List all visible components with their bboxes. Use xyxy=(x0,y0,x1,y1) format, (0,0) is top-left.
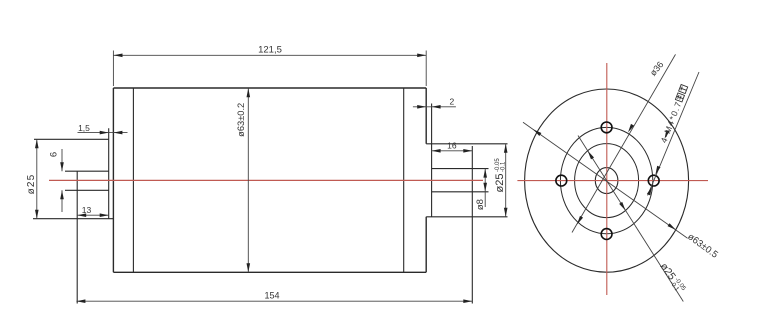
outer circle o63 body xyxy=(525,89,689,272)
end cap inner line left xyxy=(132,88,134,272)
front boss (left, 1.5mm lip) xyxy=(33,128,113,218)
svg-text:ø25: ø25 xyxy=(494,174,506,193)
bolt hole top xyxy=(601,122,612,133)
red centerline side view xyxy=(49,179,483,181)
dimension o25 left xyxy=(36,139,38,218)
bolt hole bottom xyxy=(601,229,612,240)
motor body outline xyxy=(113,88,426,272)
svg-text:1,5: 1,5 xyxy=(78,123,90,133)
svg-text:13: 13 xyxy=(82,205,92,215)
svg-text:154: 154 xyxy=(264,291,279,301)
leader o63+-0.5 diagonal xyxy=(523,122,687,238)
dimension 2 xyxy=(413,106,456,108)
rear shaft o8 lines xyxy=(432,169,489,192)
leader o25 -0.05 -0.1 diameter line through center xyxy=(578,136,683,302)
shaft circle o8 xyxy=(595,168,618,194)
dimension 154 bottom xyxy=(76,300,472,302)
svg-text:ø8: ø8 xyxy=(475,199,486,210)
leader 4-M4x0.7 through hole xyxy=(648,72,699,195)
dimension 121,5 top xyxy=(113,51,426,87)
dimension 16 xyxy=(432,150,473,152)
rear boss (right) xyxy=(426,104,507,304)
dimension 1,5 xyxy=(78,132,128,134)
dimension 6 (shaft dia) xyxy=(61,149,63,212)
svg-text:2: 2 xyxy=(450,96,455,106)
end cap inner line right xyxy=(403,88,405,272)
svg-text:6: 6 xyxy=(49,152,60,157)
svg-text:ø63±0.2: ø63±0.2 xyxy=(236,103,246,137)
bolt hole left xyxy=(556,175,567,186)
svg-text:-0.1: -0.1 xyxy=(501,161,507,172)
CJK glyphs tong kong drawn as boxes xyxy=(675,85,687,102)
dimension o25 -0.05 -0.1 right xyxy=(505,144,507,217)
svg-text:121,5: 121,5 xyxy=(258,45,282,56)
bolt circle o36 xyxy=(560,127,652,233)
svg-text:ø25: ø25 xyxy=(26,174,37,195)
leader o36 diameter line through center xyxy=(572,54,676,232)
dimension o63+-0.2 xyxy=(247,88,249,272)
bolt hole right xyxy=(648,175,659,186)
dimension 13 xyxy=(77,214,109,216)
front shaft o6 xyxy=(65,171,109,303)
red centerlines end view xyxy=(606,63,608,295)
boss circle o25 xyxy=(575,144,639,218)
dimension o8 xyxy=(484,169,486,207)
svg-text:16: 16 xyxy=(447,140,457,150)
